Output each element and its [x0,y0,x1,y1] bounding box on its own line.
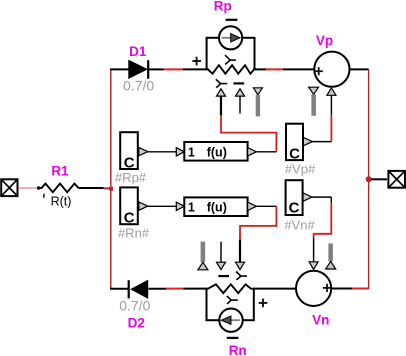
wiper arrow mark (above Rn zigzag) [236,272,247,280]
svg-text:R1: R1 [51,164,69,179]
wire: red link D1 to Rp [164,68,184,70]
wire: R1 to node A [79,187,110,189]
svg-text:0.7/0: 0.7/0 [119,297,150,313]
controlled source Vn [296,271,331,306]
wire: left vertical bus [110,69,112,288]
wire: f2 output to Rn control [240,206,276,239]
plus mark (Rp left) [192,57,201,66]
svg-text:C: C [289,199,300,216]
port P2 (right external pin) [388,171,405,188]
unconnected input arrow (Rn) [217,242,226,270]
function block f2 [176,197,256,216]
minus mark (Rp lower right) [233,82,244,84]
wire: Vp right lead [350,68,369,70]
svg-text:1: 1 [188,145,195,159]
minus mark (below Rn ammeter) [227,337,239,339]
wire: C3 to Vp control [312,115,331,141]
dangling output connector (Rp) [253,88,262,117]
wire: red link D2 to Rn [166,288,184,290]
minus mark (above Rp ammeter) [226,19,238,21]
diode D2 [129,280,148,298]
constant block C4 (#Vn#) [286,180,312,216]
wire: C2 to f2 [148,205,177,207]
svg-text:C: C [124,154,135,171]
resistor R1 [37,184,79,198]
wire: C1 to f1 [148,151,177,153]
constant block C2 [120,187,148,226]
svg-text:R(t): R(t) [51,195,72,209]
svg-text:Vn: Vn [312,313,329,328]
wire: D1 cathode lead [149,68,164,70]
input port arrow (Rn control from f2) [236,240,245,270]
constant block C1 [120,132,148,171]
svg-text:D2: D2 [128,316,145,331]
dangling output connector (Rn) [198,242,208,270]
wire: right vertical bus (red) [368,69,370,288]
svg-text:f(u): f(u) [207,145,227,159]
wiper arrow mark (below Rn zigzag) [227,296,238,304]
wire: P1 to R1 (pink) [19,187,39,189]
svg-text:Vp: Vp [316,33,333,48]
svg-text:D1: D1 [129,44,147,59]
function block f1 [176,142,256,161]
wire: C4 to Vn control [312,197,331,262]
variable resistor Rn (zigzag body) [208,284,254,293]
wire: red link Rp to Vp [266,68,283,70]
controlled source Vp [314,52,349,87]
wire: into Rp block [183,68,209,70]
junction node B (red dot) [366,176,372,182]
svg-text:#Rn#: #Rn# [118,226,150,241]
svg-text:Rn: Rn [229,343,247,356]
unconnected input arrow (Rp) [236,89,245,114]
input port arrow (Vn control) [309,262,318,270]
wiper arrow mark (above Rp zigzag) [225,55,236,64]
wire: into Rn block [184,288,209,290]
dangling output connector (Vn) [326,243,336,269]
wire: Rp parallel loop [206,38,256,70]
input port arrow (Vp control) [327,88,336,115]
port P1 (left external pin) [1,179,17,196]
input port arrow (Rp control from f1) [217,89,226,116]
svg-text:f(u): f(u) [207,201,227,215]
junction node A (red square) [109,187,113,191]
wire: bus corner to D2 cathode [110,288,129,290]
wire: Rn right to Vn [253,288,296,290]
svg-text:0.7/0: 0.7/0 [123,78,154,94]
svg-text:C: C [289,145,300,162]
wire: red link Vn to right bus [352,288,369,290]
plus mark (Rn right) [259,299,268,308]
constant block C3 (#Vp#) [286,124,312,163]
diode D1 [129,60,148,79]
svg-text:#Rp#: #Rp# [115,170,147,185]
wire: into Vp [283,68,314,70]
wire: Rn parallel loop [206,289,255,321]
svg-text:1: 1 [188,201,195,215]
wire: D2 anode lead [149,288,167,290]
wire: node B to port P2 [371,178,387,180]
wire: Rp right to Vp [253,68,266,70]
wire: Vn right lead [331,288,352,290]
wire: f1 output to Rp control [221,115,276,151]
svg-text:Rp: Rp [214,0,232,13]
variable resistor Rp (zigzag body) [208,65,254,74]
ammeter (Rn current sensor) [219,309,242,332]
minus mark (Rn upper) [218,275,229,277]
ammeter (Rp current sensor) [219,26,242,49]
dangling output connector (Vp) [309,87,319,116]
svg-text:C: C [124,210,135,227]
wiper arrow mark (below Rp zigzag) [216,79,227,87]
svg-text:#Vn#: #Vn# [284,218,315,233]
wire: bus corner to D1 anode [110,68,129,70]
svg-text:#Vp#: #Vp# [285,162,316,177]
